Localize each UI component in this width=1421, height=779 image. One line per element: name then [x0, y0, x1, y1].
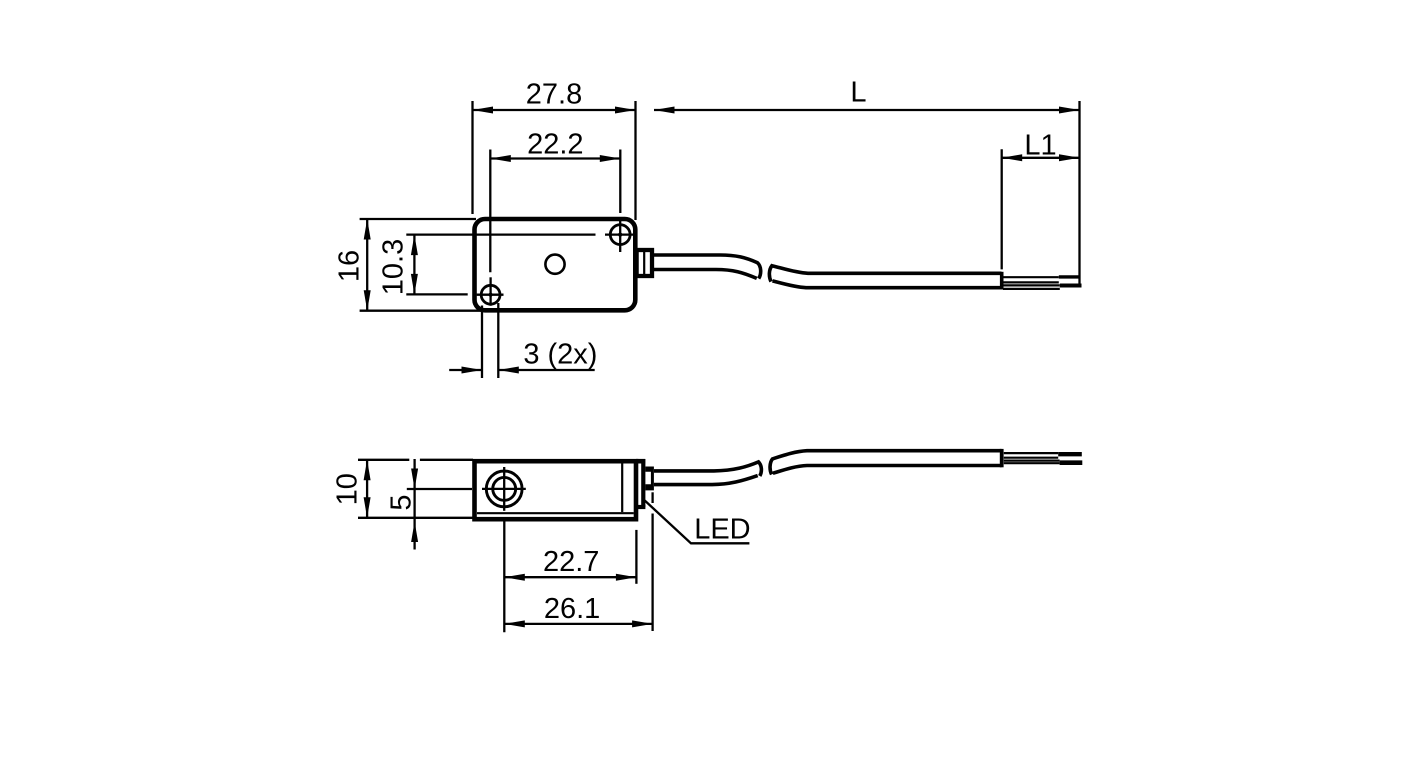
hole bottom-left center dot [489, 293, 493, 297]
body inner bottom line (side view) [477, 512, 634, 514]
dimension 16 bottom extension line [360, 310, 481, 312]
mounting hole top-right : circle [610, 225, 630, 245]
arrow L right [1059, 107, 1080, 114]
arrow 26.1 right [632, 620, 653, 627]
svg-text:26.1: 26.1 [544, 593, 600, 625]
arrow 26.1 left [504, 620, 525, 627]
dimension 5 line [413, 459, 415, 550]
end cap right edge (side view) [641, 459, 645, 507]
dimension 10 bottom extension line [358, 517, 473, 519]
dimension L1 extension line left [1001, 149, 1003, 269]
cable sheath end (side view) [1000, 449, 1004, 467]
arrow 22.2 right [600, 155, 621, 162]
arrow 10 bottom [364, 497, 371, 518]
arrow 5 top (outside, pointing down) [411, 469, 418, 490]
svg-text:3 (2x): 3 (2x) [523, 339, 597, 371]
wire outline 1 (top view) [1003, 276, 1059, 278]
dimension 26.1 right extension line [651, 514, 653, 632]
arrow 16 bottom [364, 290, 371, 311]
dimension 22.2 extension line left [489, 150, 491, 273]
target circle inner (side view) [493, 477, 516, 500]
arrow 22.7 left [504, 574, 525, 581]
svg-text:27.8: 27.8 [526, 79, 582, 111]
wire outline 2 (top view) [1003, 281, 1059, 283]
cable left segment top stroke and break cap (side view) [654, 462, 761, 476]
svg-text:16: 16 [333, 250, 365, 282]
LED leader line [645, 500, 750, 543]
arrow 3(2x) left [462, 367, 483, 374]
sensor body (top view) [475, 219, 636, 310]
cable left segment bottom stroke (side view) [654, 476, 758, 485]
target circle crosshair horizontal [482, 488, 526, 490]
body (side view) [475, 461, 637, 519]
arrow 27.8 left [473, 107, 494, 114]
dimension 16 top extension line [360, 218, 476, 220]
dimension 3(2x) line left part [449, 369, 482, 371]
arrow 16 top [364, 219, 371, 240]
cable gland (top view) [637, 250, 652, 276]
svg-text:LED: LED [694, 514, 750, 546]
hole top-right crosshair horizontal [605, 233, 634, 235]
dimension 27.8 extension line left [471, 101, 473, 214]
svg-text:L: L [850, 77, 866, 109]
dimension 3(2x) extension line right [497, 303, 499, 378]
svg-text:10.3: 10.3 [378, 239, 410, 295]
wire outline 1 (side view) [1004, 452, 1058, 454]
cable sheath end (top view) [1000, 272, 1004, 290]
dimension L1 line [1002, 157, 1080, 159]
wire bare end 1 (side view) [1058, 452, 1082, 456]
dimension 16 line [366, 219, 368, 311]
svg-text:10: 10 [332, 473, 364, 505]
dimension 10 top extension line seg1 [358, 459, 409, 461]
wire outline 3 (top view) [1003, 284, 1060, 286]
arrow 3(2x) right [498, 367, 519, 374]
body inner right divider (side view) [621, 463, 623, 512]
dimension 27.8 line [473, 109, 636, 111]
dimension 3(2x) extension line left [481, 306, 483, 379]
wire bare end 2 (top view) [1060, 284, 1082, 288]
dimension L line [654, 109, 1080, 111]
dimension 10.3 line [413, 235, 415, 295]
wire outline 4 (side view) [1004, 462, 1060, 464]
hole top-right center dot [618, 233, 622, 237]
dimension 10 line [366, 460, 368, 518]
dimension 26.1 right extension dash [651, 492, 653, 503]
svg-text:22.7: 22.7 [543, 546, 599, 578]
arrow L1 right [1059, 154, 1080, 161]
dimension 3(2x) line right part [498, 369, 594, 371]
dimension 10 top extension line seg2 [420, 459, 473, 461]
hole top-right crosshair vertical [619, 221, 621, 252]
cable gland (side view) [645, 467, 654, 491]
hole bottom-left crosshair vertical [489, 277, 491, 306]
end cap top edge (side view) [636, 459, 645, 464]
cable break right cap and right segment top stroke (side view) [770, 451, 1001, 475]
dimension 26.1 line [504, 623, 652, 625]
target circle outer (side view) [486, 471, 522, 507]
arrow L left [654, 107, 675, 114]
dimension 22.7 left extension line [503, 521, 505, 632]
wire outline 3 (side view) [1004, 460, 1060, 462]
wire bare end 1 (top view) [1059, 275, 1080, 278]
cable gland divider [643, 252, 645, 274]
cable right segment bottom stroke (side view) [773, 466, 1002, 474]
dimension L right extension line [1078, 101, 1080, 285]
target circle crosshair vertical [503, 467, 505, 511]
hole bottom-left crosshair horizontal [477, 294, 504, 296]
svg-text:L1: L1 [1024, 130, 1056, 162]
dimension 5 reference line [407, 488, 472, 490]
arrow 10.3 bottom [411, 274, 418, 295]
dimension 22.2 line [490, 157, 620, 159]
arrow L1 left [1002, 154, 1023, 161]
dimension 10.3 bottom extension line [406, 293, 467, 295]
wire outline 2 (side view) [1004, 457, 1058, 459]
dimension 22.7 line [504, 576, 636, 578]
arrow 27.8 right [615, 107, 636, 114]
svg-text:5: 5 [386, 494, 418, 510]
arrow 10.3 top [411, 235, 418, 256]
svg-text:22.2: 22.2 [527, 129, 583, 161]
center hole (top view) [545, 255, 564, 274]
arrow 10 top [364, 460, 371, 481]
cable left segment top stroke and break cap (top view) [654, 255, 761, 279]
dimension 22.7 right extension line [635, 530, 637, 584]
cable left segment bottom stroke (top view) [654, 270, 757, 279]
dimension 10.3 top extension line (runs into body to hole) [406, 233, 595, 235]
end cap bottom edge (side view) [634, 505, 645, 509]
dimension 22.2 extension line right [619, 150, 621, 214]
cable right segment bottom stroke (top view) [773, 281, 1002, 288]
cable break right cap and right segment top stroke (top view) [769, 266, 1001, 282]
wire outline 4 (top view) [1003, 288, 1060, 290]
wire bare end 2 (side view) [1060, 460, 1083, 465]
arrow 22.2 left [490, 155, 511, 162]
arrow 5 bottom (outside, pointing up) [411, 522, 418, 543]
dimension 27.8 extension line right [634, 101, 636, 220]
mounting hole bottom-left : circle [481, 285, 500, 304]
arrow 22.7 right [616, 574, 637, 581]
